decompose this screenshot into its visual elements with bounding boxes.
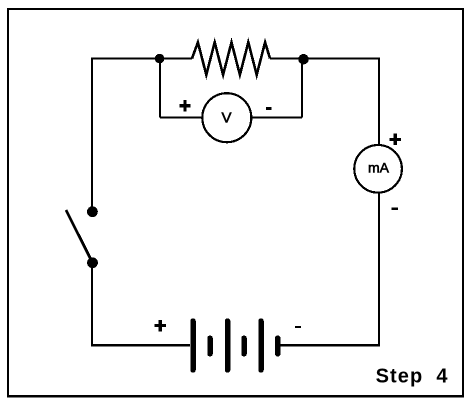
svg-text:V: V — [221, 109, 231, 126]
svg-text:4: 4 — [436, 365, 448, 387]
svg-text:Step: Step — [376, 365, 424, 387]
svg-text:mA: mA — [368, 160, 390, 176]
